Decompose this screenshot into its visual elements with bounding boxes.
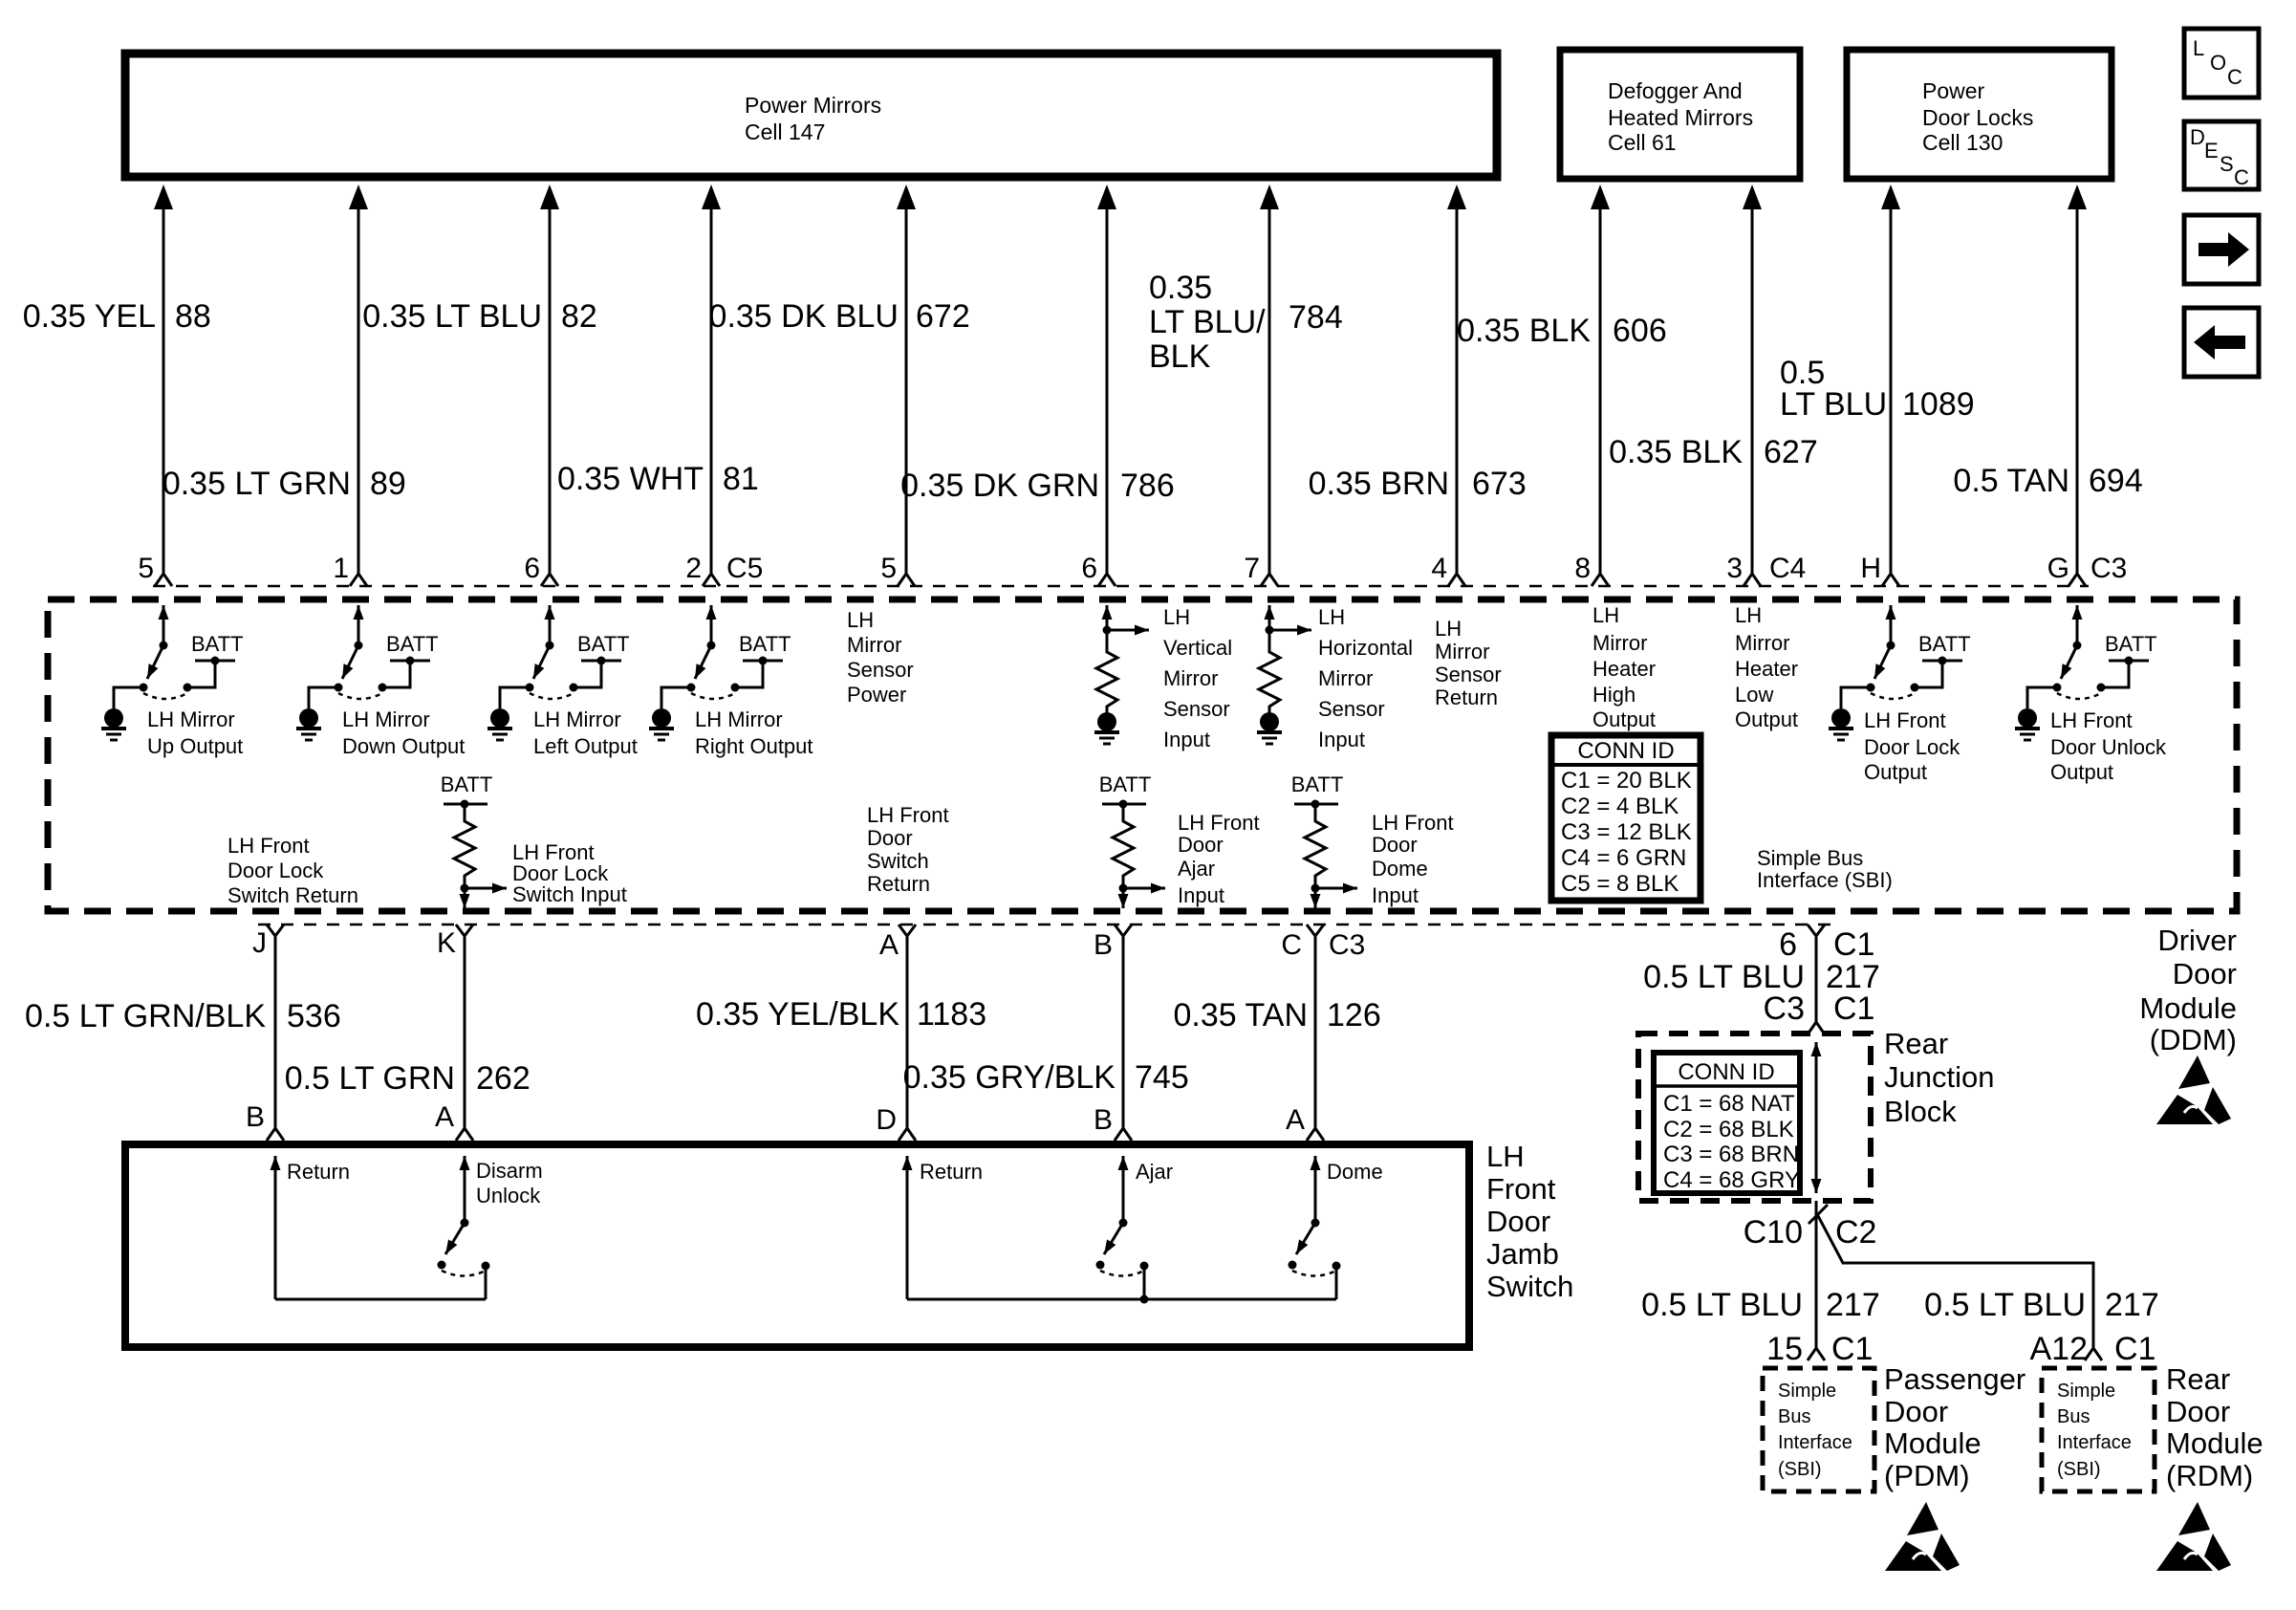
switch LH Mirror Up Output	[101, 605, 244, 740]
svg-text:Simple Bus: Simple Bus	[1757, 846, 1863, 870]
resistor LH Front Door Dome	[1291, 772, 1357, 908]
wire Disarm Unlock A inside jamb	[464, 1156, 466, 1223]
svg-text:Junction: Junction	[1884, 1060, 1994, 1094]
svg-text:Output: Output	[1864, 760, 1927, 784]
connector fork A12 C1	[2085, 1348, 2102, 1360]
label wire 126	[1174, 997, 1381, 1033]
svg-text:Vertical: Vertical	[1163, 636, 1232, 660]
svg-text:C3: C3	[1329, 929, 1365, 961]
svg-text:C3 = 68 BRN: C3 = 68 BRN	[1663, 1142, 1799, 1167]
svg-text:Module: Module	[2166, 1426, 2264, 1460]
svg-text:C3 = 12 BLK: C3 = 12 BLK	[1561, 819, 1692, 845]
svg-text:0.35 LT BLU: 0.35 LT BLU	[362, 298, 542, 335]
svg-text:LH: LH	[1435, 617, 1462, 641]
svg-text:126: 126	[1327, 997, 1381, 1033]
svg-text:D: D	[2190, 125, 2205, 149]
svg-text:LH Front: LH Front	[2050, 708, 2133, 732]
svg-text:(SBI): (SBI)	[2057, 1459, 2101, 1480]
svg-text:0.35 TAN: 0.35 TAN	[1174, 997, 1308, 1033]
svg-text:Output: Output	[1735, 707, 1798, 731]
svg-text:LH Front: LH Front	[867, 803, 949, 827]
label wire 217 PDM	[1641, 1287, 1880, 1323]
wire 627 BLK pin 3 to Defogger	[1743, 185, 1762, 586]
label LH Horizontal Mirror Sensor Input	[1318, 605, 1413, 751]
svg-text:262: 262	[476, 1060, 531, 1097]
wire inside RJB	[1815, 1042, 1818, 1193]
label LH Mirror Left Output	[533, 707, 638, 758]
box Power Door Locks Cell 130	[1847, 50, 2112, 179]
svg-text:6: 6	[1081, 553, 1097, 584]
label Disarm Unlock	[476, 1159, 543, 1207]
label wire 694	[1953, 463, 2142, 499]
label wire 217 upper	[1643, 959, 1880, 995]
label wire 784	[1149, 270, 1343, 375]
svg-text:Sensor: Sensor	[1163, 697, 1230, 721]
resistor LH Horizontal Mirror Sensor	[1257, 605, 1311, 744]
svg-text:0.35 YEL/BLK: 0.35 YEL/BLK	[696, 996, 899, 1033]
label wire 1089	[1780, 355, 1975, 423]
svg-text:Sensor: Sensor	[1435, 663, 1502, 686]
label LH Mirror Sensor Return	[1435, 617, 1502, 709]
label LH Front Door Lock Switch Return	[227, 834, 358, 907]
label Passenger Door Module PDM	[1884, 1362, 2025, 1492]
svg-text:Door Unlock: Door Unlock	[2050, 735, 2167, 759]
svg-text:High: High	[1592, 683, 1635, 707]
label wire 88	[23, 298, 211, 335]
svg-text:Simple: Simple	[2057, 1381, 2115, 1402]
wire 126 TAN pin C	[1307, 925, 1324, 1141]
svg-text:Rear: Rear	[1884, 1027, 1948, 1060]
label pin 15 C1	[1766, 1331, 1873, 1367]
wire 536 LT GRN/BLK pin J	[267, 925, 284, 1141]
wire 262 LT GRN pin K	[456, 925, 473, 1141]
label wire 606	[1457, 313, 1667, 349]
svg-text:Driver: Driver	[2157, 924, 2237, 957]
svg-text:Switch Input: Switch Input	[512, 882, 627, 906]
switch LH Front Door Unlock Output	[2015, 605, 2157, 740]
svg-text:C4: C4	[1769, 553, 1806, 584]
svg-text:Output: Output	[1592, 707, 1656, 731]
svg-text:Door: Door	[1486, 1205, 1550, 1238]
box Power Mirrors Cell 147	[125, 54, 1497, 177]
svg-text:0.35 YEL: 0.35 YEL	[23, 298, 156, 335]
svg-text:8: 8	[1574, 553, 1591, 584]
resistor LH Front Door Lock Switch	[441, 772, 507, 908]
svg-text:Return: Return	[920, 1160, 983, 1184]
svg-text:Mirror: Mirror	[847, 633, 901, 657]
box LH Front Door Jamb Switch	[125, 1144, 1469, 1347]
svg-text:L: L	[2193, 36, 2204, 60]
svg-text:C4 = 68 GRY: C4 = 68 GRY	[1663, 1167, 1800, 1193]
svg-text:217: 217	[1826, 1287, 1880, 1323]
svg-text:Rear: Rear	[2166, 1362, 2230, 1396]
symbol ESD DDM	[2156, 1055, 2231, 1124]
svg-text:536: 536	[287, 998, 341, 1034]
switch ajar	[1096, 1219, 1149, 1300]
svg-text:LH: LH	[1163, 605, 1190, 629]
label wire 745	[903, 1059, 1189, 1096]
svg-text:LH: LH	[1592, 603, 1619, 627]
wire branch to RDM	[1816, 1212, 2093, 1348]
svg-text:A: A	[1286, 1104, 1305, 1136]
label LH Front Door Ajar Input	[1178, 811, 1260, 907]
svg-text:0.5 LT GRN/BLK: 0.5 LT GRN/BLK	[25, 998, 266, 1034]
svg-text:C2: C2	[1835, 1214, 1876, 1251]
svg-text:C5 = 8 BLK: C5 = 8 BLK	[1561, 871, 1679, 897]
svg-text:5: 5	[880, 553, 897, 584]
svg-text:Ajar: Ajar	[1178, 857, 1215, 881]
svg-text:LH: LH	[1318, 605, 1345, 629]
svg-text:0.5 LT BLU: 0.5 LT BLU	[1924, 1287, 2086, 1323]
svg-text:Right Output: Right Output	[695, 734, 813, 758]
svg-text:CONN ID: CONN ID	[1678, 1059, 1774, 1085]
table CONN ID RJB	[1654, 1053, 1800, 1193]
box Simple Bus Interface PDM	[1763, 1368, 1874, 1491]
svg-text:15: 15	[1766, 1331, 1803, 1367]
wire 786 DK GRN pin 6	[1097, 185, 1116, 586]
svg-text:Heater: Heater	[1592, 657, 1656, 681]
pin letters below DDM	[252, 927, 1365, 961]
svg-text:Sensor: Sensor	[1318, 697, 1385, 721]
svg-text:88: 88	[175, 298, 211, 335]
svg-text:Switch: Switch	[1486, 1270, 1573, 1303]
connector line DDM top	[153, 585, 2089, 588]
wire 82 LT BLU pin 6	[540, 185, 559, 586]
svg-text:O: O	[2210, 51, 2226, 75]
svg-text:Simple: Simple	[1778, 1381, 1836, 1402]
box Simple Bus Interface RDM	[2042, 1368, 2155, 1491]
label pin C3 C1	[1764, 990, 1875, 1027]
svg-text:672: 672	[916, 298, 970, 335]
svg-text:Return: Return	[1435, 685, 1498, 709]
label wire 673	[1309, 466, 1527, 502]
label wire 786	[900, 468, 1175, 504]
svg-text:Door Lock: Door Lock	[1864, 735, 1960, 759]
label wire 81	[557, 461, 759, 497]
svg-text:C1: C1	[1831, 1331, 1873, 1367]
wire 673 BRN pin 4	[1447, 185, 1466, 586]
svg-text:LH Front: LH Front	[1178, 811, 1260, 835]
svg-text:Return: Return	[867, 872, 930, 896]
svg-text:Door Locks: Door Locks	[1922, 105, 2033, 130]
svg-text:B: B	[246, 1101, 265, 1133]
svg-text:89: 89	[370, 466, 406, 502]
svg-text:Jamb: Jamb	[1486, 1237, 1559, 1271]
svg-text:Block: Block	[1884, 1095, 1957, 1128]
svg-text:6: 6	[524, 553, 540, 584]
svg-text:0.35 BRN: 0.35 BRN	[1309, 466, 1449, 502]
svg-text:Cell 61: Cell 61	[1608, 130, 1677, 155]
svg-text:0.35 DK GRN: 0.35 DK GRN	[900, 468, 1099, 504]
svg-text:Mirror: Mirror	[1435, 640, 1489, 664]
svg-text:81: 81	[723, 461, 759, 497]
svg-text:Cell 130: Cell 130	[1922, 130, 2003, 155]
label LH Front Door Jamb Switch	[1486, 1140, 1573, 1303]
svg-text:Power Mirrors: Power Mirrors	[745, 93, 881, 118]
label LH Mirror Heater High Output	[1592, 603, 1656, 731]
connector line DDM bottom	[258, 924, 1830, 926]
svg-text:Bus: Bus	[1778, 1406, 1810, 1427]
svg-text:0.35 BLK: 0.35 BLK	[1609, 434, 1743, 470]
svg-text:E: E	[2204, 139, 2219, 163]
wire Return B inside jamb	[274, 1156, 277, 1299]
svg-text:J: J	[252, 927, 267, 959]
svg-text:Unlock: Unlock	[476, 1184, 541, 1207]
label wire 82	[362, 298, 597, 335]
junction C10 C2 crossing	[1809, 1205, 1828, 1224]
svg-text:B: B	[1094, 929, 1113, 961]
svg-text:LH: LH	[1735, 603, 1762, 627]
label Rear Junction Block	[1884, 1027, 1994, 1128]
svg-text:C: C	[2227, 65, 2242, 89]
svg-text:C1 = 68 NAT: C1 = 68 NAT	[1663, 1091, 1795, 1117]
svg-text:LH: LH	[1486, 1140, 1525, 1173]
svg-text:C: C	[1281, 929, 1302, 961]
svg-text:Passenger: Passenger	[1884, 1362, 2025, 1396]
svg-text:0.35 BLK: 0.35 BLK	[1457, 313, 1591, 349]
svg-text:Heater: Heater	[1735, 657, 1798, 681]
label LH Front Door Switch Return	[867, 803, 949, 896]
icon right arrow button	[2184, 215, 2259, 284]
svg-text:A: A	[435, 1101, 454, 1133]
svg-text:C3: C3	[2090, 553, 2127, 584]
label wire 217 RDM	[1924, 1287, 2159, 1323]
wire 89 LT GRN pin 1	[349, 185, 368, 586]
label wire 262	[285, 1060, 531, 1097]
label Rear Door Module RDM	[2166, 1362, 2264, 1492]
svg-text:Interface: Interface	[2057, 1432, 2132, 1453]
svg-text:LH Front: LH Front	[1372, 811, 1454, 835]
wire 745 GRY/BLK pin B	[1115, 925, 1132, 1141]
svg-text:Door: Door	[867, 826, 913, 850]
switch LH Front Door Lock Output	[1829, 605, 1971, 740]
wire 217 to PDM	[1815, 1201, 1818, 1348]
label SBI pin 6 C1	[1779, 926, 1874, 963]
svg-text:Module: Module	[2139, 991, 2237, 1025]
svg-text:Input: Input	[1178, 883, 1224, 907]
svg-text:Mirror: Mirror	[1735, 631, 1789, 655]
wire Dome A inside jamb	[1314, 1156, 1317, 1223]
svg-text:D: D	[876, 1104, 897, 1136]
resistor LH Front Door Ajar	[1099, 772, 1165, 908]
symbol ESD RDM	[2156, 1502, 2231, 1571]
wire jamb left link	[275, 1298, 486, 1301]
svg-text:0.35 DK BLU: 0.35 DK BLU	[709, 298, 899, 335]
wire 672 DK BLU pin 5	[897, 185, 916, 586]
label LH Front Door Unlock Output	[2050, 708, 2167, 784]
svg-text:Front: Front	[1486, 1172, 1556, 1206]
svg-text:5: 5	[138, 553, 154, 584]
svg-text:Door: Door	[2166, 1395, 2230, 1428]
DDM module dashed box	[48, 599, 2237, 911]
svg-text:627: 627	[1764, 434, 1818, 470]
svg-text:1183: 1183	[917, 996, 986, 1033]
icon LOC button	[2184, 29, 2259, 98]
svg-text:694: 694	[2089, 463, 2143, 499]
svg-text:Power: Power	[847, 683, 906, 707]
label pin A12 C1	[2030, 1331, 2156, 1367]
svg-text:Mirror: Mirror	[1163, 666, 1218, 690]
svg-text:Defogger And: Defogger And	[1608, 78, 1743, 103]
label LH Front Door Dome Input	[1372, 811, 1454, 907]
wire 81 WHT pin 2	[702, 185, 721, 586]
svg-text:Up Output: Up Output	[147, 734, 243, 758]
wire SBI 217 from DDM	[1808, 925, 1825, 1034]
svg-text:H: H	[1860, 553, 1881, 584]
svg-text:673: 673	[1472, 466, 1527, 502]
svg-text:LH Front: LH Front	[227, 834, 310, 858]
label wire 672	[709, 298, 970, 335]
svg-text:(RDM): (RDM)	[2166, 1459, 2253, 1492]
svg-text:Switch Return: Switch Return	[227, 883, 358, 907]
icon left arrow button	[2184, 308, 2259, 377]
switch LH Mirror Right Output	[649, 605, 791, 740]
svg-text:Door: Door	[2173, 957, 2237, 990]
svg-text:Dome: Dome	[1372, 857, 1428, 881]
svg-text:Door Lock: Door Lock	[227, 859, 324, 882]
switch LH Mirror Left Output	[487, 605, 630, 740]
svg-text:C5: C5	[726, 553, 763, 584]
wire Return D inside jamb	[906, 1156, 909, 1299]
svg-text:2: 2	[685, 553, 702, 584]
svg-text:Return: Return	[287, 1160, 350, 1184]
svg-text:786: 786	[1120, 468, 1175, 504]
label LH Mirror Heater Low Output	[1735, 603, 1798, 731]
label LH Mirror Down Output	[342, 707, 465, 758]
svg-text:Dome: Dome	[1327, 1160, 1383, 1184]
svg-text:C: C	[2234, 165, 2249, 189]
svg-text:C10: C10	[1744, 1214, 1803, 1251]
label wire 89	[162, 466, 406, 502]
svg-text:C2 = 68 BLK: C2 = 68 BLK	[1663, 1117, 1794, 1142]
svg-text:BLK: BLK	[1149, 338, 1211, 375]
svg-text:0.5 LT BLU: 0.5 LT BLU	[1641, 1287, 1803, 1323]
switch dome	[1289, 1219, 1341, 1300]
svg-text:1089: 1089	[1902, 386, 1975, 423]
svg-text:Input: Input	[1163, 728, 1210, 751]
svg-text:Disarm: Disarm	[476, 1159, 543, 1183]
svg-text:Module: Module	[1884, 1426, 1982, 1460]
svg-text:C2 = 4 BLK: C2 = 4 BLK	[1561, 794, 1679, 819]
svg-text:LH Mirror: LH Mirror	[533, 707, 621, 731]
label LH Front Door Lock Switch Input	[512, 840, 627, 906]
svg-text:Horizontal: Horizontal	[1318, 636, 1413, 660]
label Simple Bus Interface SBI DDM	[1757, 846, 1893, 892]
switch disarm unlock	[438, 1219, 490, 1300]
svg-text:LH Mirror: LH Mirror	[342, 707, 430, 731]
svg-text:C3: C3	[1764, 990, 1805, 1027]
label wire 627	[1609, 434, 1818, 470]
wire 1183 YEL/BLK pin A	[899, 925, 916, 1141]
label LH Front Door Lock Output	[1864, 708, 1960, 784]
svg-text:1: 1	[333, 553, 349, 584]
svg-text:Output: Output	[2050, 760, 2113, 784]
svg-text:C1 = 20 BLK: C1 = 20 BLK	[1561, 768, 1692, 794]
connector fork 15 C1	[1808, 1348, 1825, 1360]
svg-text:Left Output: Left Output	[533, 734, 638, 758]
resistor LH Vertical Mirror Sensor	[1094, 605, 1149, 744]
svg-text:745: 745	[1135, 1059, 1189, 1096]
label LH Mirror Up Output	[147, 707, 243, 758]
svg-text:LH: LH	[847, 608, 874, 632]
svg-text:LH Mirror: LH Mirror	[695, 707, 783, 731]
junction ajar contact	[1140, 1295, 1149, 1304]
svg-text:7: 7	[1244, 553, 1260, 584]
svg-text:Sensor: Sensor	[847, 658, 914, 682]
svg-text:Interface (SBI): Interface (SBI)	[1757, 868, 1893, 892]
svg-text:LH Front: LH Front	[1864, 708, 1946, 732]
svg-text:Door: Door	[1884, 1395, 1948, 1428]
box Defogger And Heated Mirrors Cell 61	[1560, 50, 1800, 179]
svg-text:Low: Low	[1735, 683, 1773, 707]
svg-text:C4 = 6 GRN: C4 = 6 GRN	[1561, 845, 1686, 871]
svg-text:Cell 147: Cell 147	[745, 120, 825, 144]
svg-text:0.35 GRY/BLK: 0.35 GRY/BLK	[903, 1059, 1116, 1096]
svg-text:Ajar: Ajar	[1136, 1160, 1173, 1184]
label C10 C2	[1744, 1214, 1877, 1251]
svg-text:Input: Input	[1372, 883, 1419, 907]
label wire 1183	[696, 996, 986, 1033]
svg-text:Door: Door	[1372, 833, 1418, 857]
svg-text:(PDM): (PDM)	[1884, 1459, 1970, 1492]
icon DESC button	[2184, 121, 2259, 189]
svg-text:C1: C1	[1833, 990, 1874, 1027]
label Driver Door Module DDM	[2139, 924, 2237, 1056]
svg-text:3: 3	[1726, 553, 1743, 584]
wire 88 YEL to Power Mirrors pin 5	[154, 185, 173, 586]
svg-text:Mirror: Mirror	[1318, 666, 1373, 690]
svg-text:Switch: Switch	[867, 849, 929, 873]
wire 784 LT BLU/BLK pin 7	[1260, 185, 1279, 586]
svg-text:0.35: 0.35	[1149, 270, 1212, 306]
label LH Mirror Right Output	[695, 707, 813, 758]
svg-text:C1: C1	[2114, 1331, 2155, 1367]
svg-text:6: 6	[1779, 926, 1797, 963]
svg-text:(SBI): (SBI)	[1778, 1459, 1822, 1480]
symbol ESD PDM	[1885, 1502, 1960, 1571]
svg-text:CONN ID: CONN ID	[1577, 738, 1674, 764]
wire Ajar B inside jamb	[1122, 1156, 1125, 1223]
svg-text:A: A	[879, 929, 899, 961]
wire 1089 LT BLU pin H to Power Door Locks	[1881, 185, 1900, 586]
svg-text:217: 217	[2105, 1287, 2159, 1323]
svg-text:LT BLU: LT BLU	[1780, 386, 1887, 423]
svg-text:82: 82	[561, 298, 597, 335]
box Rear Junction Block	[1638, 1033, 1871, 1201]
svg-text:Heated Mirrors: Heated Mirrors	[1608, 105, 1753, 130]
pin letters jamb switch top	[246, 1101, 1305, 1136]
pin labels DDM top row	[138, 553, 2127, 584]
svg-text:A12: A12	[2030, 1331, 2089, 1367]
svg-text:C1: C1	[1833, 926, 1874, 963]
svg-text:606: 606	[1613, 313, 1667, 349]
label wire 536	[25, 998, 341, 1034]
svg-text:0.35 LT GRN: 0.35 LT GRN	[162, 466, 351, 502]
svg-text:Mirror: Mirror	[1592, 631, 1647, 655]
wire 694 TAN pin G to Power Door Locks	[2068, 185, 2087, 586]
wire 606 BLK pin 8 to Defogger	[1591, 185, 1610, 586]
svg-text:S: S	[2220, 152, 2234, 176]
svg-text:0.5 LT GRN: 0.5 LT GRN	[285, 1060, 455, 1097]
svg-text:Down Output: Down Output	[342, 734, 465, 758]
svg-text:784: 784	[1289, 299, 1343, 336]
table CONN ID DDM	[1551, 735, 1700, 901]
svg-text:0.35 WHT: 0.35 WHT	[557, 461, 704, 497]
svg-text:B: B	[1094, 1104, 1113, 1136]
svg-text:Bus: Bus	[2057, 1406, 2090, 1427]
svg-text:Door: Door	[1178, 833, 1224, 857]
wire jamb right link	[907, 1298, 1336, 1301]
